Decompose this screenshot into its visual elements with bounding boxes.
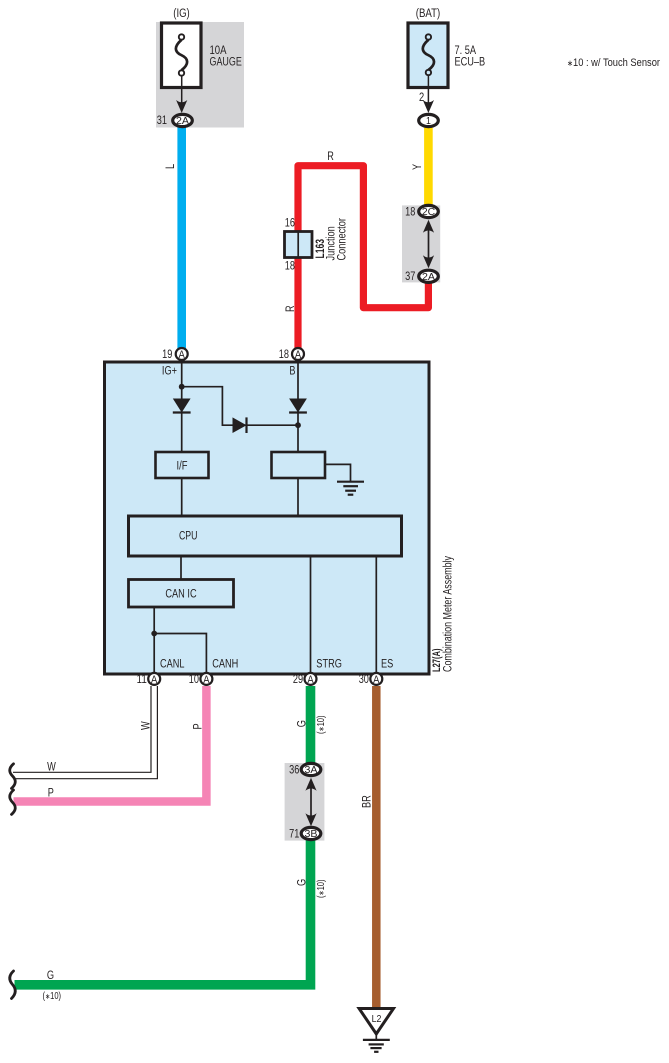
svg-text:B: B	[289, 365, 295, 377]
svg-text:11: 11	[137, 674, 147, 686]
svg-text:(∗10): (∗10)	[43, 991, 62, 1002]
svg-text:ECU–B: ECU–B	[455, 57, 486, 69]
svg-text:Combination Meter Assembly: Combination Meter Assembly	[442, 556, 454, 672]
svg-text:W: W	[47, 761, 56, 773]
svg-text:A: A	[373, 674, 380, 686]
svg-text:STRG: STRG	[316, 658, 342, 670]
svg-text:3B: 3B	[305, 829, 318, 840]
svg-text:71: 71	[289, 829, 299, 841]
svg-text:L2: L2	[372, 1013, 382, 1025]
svg-text:G: G	[47, 970, 54, 982]
svg-text:10A: 10A	[210, 45, 227, 57]
svg-text:2: 2	[419, 92, 424, 104]
svg-text:P: P	[48, 787, 54, 799]
svg-text:IG+: IG+	[162, 365, 177, 377]
svg-text:1: 1	[426, 116, 431, 127]
svg-text:37: 37	[405, 271, 415, 283]
svg-text:16: 16	[285, 218, 295, 230]
svg-text:L27(A): L27(A)	[431, 648, 443, 672]
svg-text:BR: BR	[361, 795, 373, 808]
svg-text:CANL: CANL	[160, 658, 185, 670]
svg-text:Y: Y	[412, 164, 424, 170]
svg-text:A: A	[151, 674, 158, 686]
svg-text:G: G	[296, 720, 308, 727]
svg-text:CPU: CPU	[179, 531, 198, 543]
svg-text:Connector: Connector	[336, 218, 348, 261]
svg-text:L: L	[165, 163, 177, 169]
svg-text:31: 31	[157, 115, 167, 127]
svg-text:A: A	[295, 349, 302, 361]
svg-text:GAUGE: GAUGE	[210, 57, 243, 69]
svg-text:2A: 2A	[176, 116, 189, 127]
svg-text:18: 18	[285, 260, 295, 272]
svg-text:P: P	[192, 723, 204, 729]
svg-text:29: 29	[293, 674, 303, 686]
svg-text:CAN IC: CAN IC	[165, 589, 196, 601]
svg-text:ES: ES	[381, 658, 394, 670]
svg-text:2C: 2C	[422, 207, 435, 218]
svg-text:2A: 2A	[422, 272, 435, 283]
svg-text:R: R	[285, 305, 297, 312]
svg-text:R: R	[327, 151, 334, 163]
svg-text:A: A	[307, 674, 314, 686]
svg-text:I/F: I/F	[177, 460, 188, 472]
svg-text:18: 18	[405, 206, 415, 218]
svg-text:19: 19	[162, 349, 172, 361]
svg-text:∗10 : w/ Touch Sensor: ∗10 : w/ Touch Sensor	[567, 57, 660, 69]
svg-text:A: A	[179, 349, 186, 361]
svg-text:A: A	[203, 674, 210, 686]
svg-text:10: 10	[189, 674, 199, 686]
svg-text:CANH: CANH	[212, 658, 238, 670]
svg-text:(∗10): (∗10)	[316, 880, 327, 899]
svg-text:7. 5A: 7. 5A	[455, 45, 477, 57]
svg-text:18: 18	[279, 349, 289, 361]
svg-text:30: 30	[359, 674, 369, 686]
svg-text:(∗10): (∗10)	[316, 716, 327, 735]
svg-text:36: 36	[289, 765, 299, 777]
svg-text:(IG): (IG)	[173, 8, 190, 20]
svg-text:(BAT): (BAT)	[416, 8, 441, 20]
svg-text:3A: 3A	[305, 765, 318, 776]
svg-text:G: G	[297, 879, 309, 886]
svg-text:W: W	[141, 721, 153, 730]
